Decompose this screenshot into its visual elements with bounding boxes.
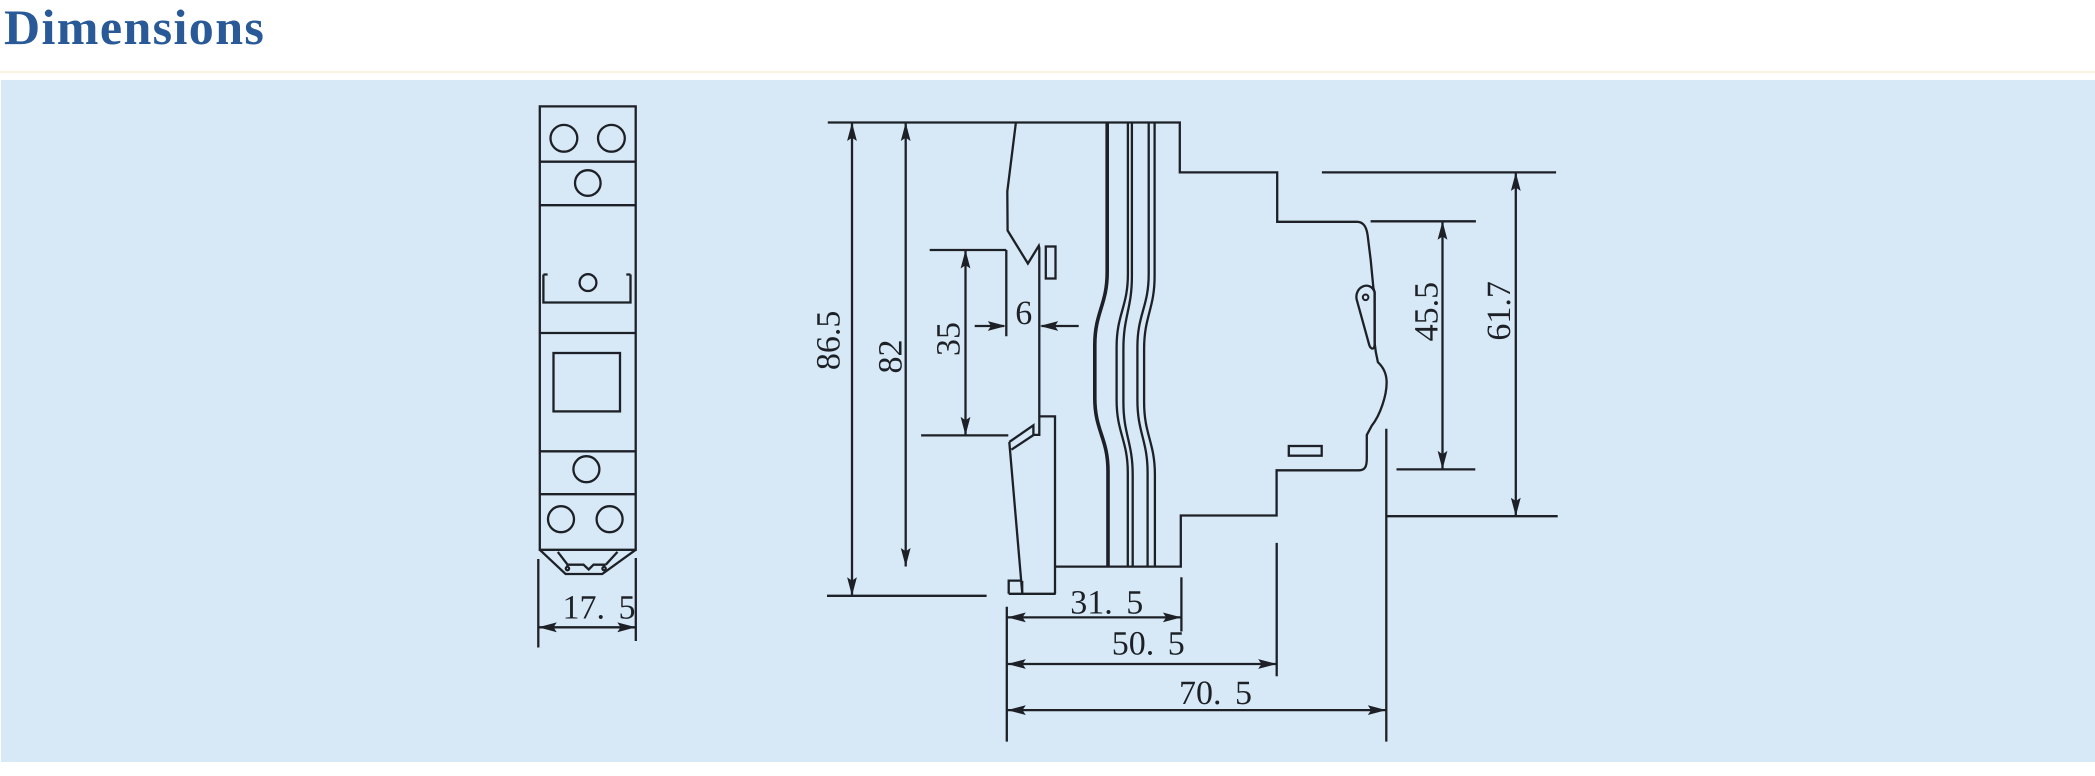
- front view divider 2: [540, 204, 636, 206]
- front view clip inner bottom with notch: [568, 565, 606, 570]
- front view terminal circle bottom-left: [548, 506, 574, 532]
- break line 1: [1095, 123, 1108, 567]
- arrowhead 50.5 left: [1007, 659, 1026, 669]
- dim 61.7 dimension line: [1515, 172, 1517, 516]
- front view small circle in bracket: [580, 274, 597, 291]
- dim 17.5 right extension line: [635, 558, 637, 641]
- svg-text:61.7: 61.7: [1481, 281, 1518, 341]
- front view clip left hook: [566, 565, 569, 571]
- svg-text:35: 35: [931, 322, 968, 356]
- front view divider 5: [540, 493, 636, 495]
- din clip slider left edge: [1009, 442, 1022, 594]
- svg-text:70. 5: 70. 5: [1179, 675, 1252, 712]
- dim 70.5 right extension line: [1385, 429, 1387, 742]
- din clip slider foot: [1009, 581, 1023, 594]
- arrowhead 31.5 left: [1007, 613, 1026, 623]
- dim 17.5 left extension line: [537, 559, 539, 648]
- front view divider 1: [540, 161, 636, 163]
- arrowhead 17.5 right: [617, 622, 636, 632]
- din clip slider flag: [1009, 425, 1033, 449]
- arrowhead 70.5 left: [1007, 705, 1026, 715]
- front view clip right hook: [602, 565, 605, 571]
- arrowhead 17.5 left: [538, 622, 557, 632]
- arrowhead 45.5 top: [1438, 221, 1448, 240]
- dim 35 top extension line: [930, 249, 1007, 251]
- arrowhead 82 bottom: [901, 548, 911, 567]
- front view terminal circle bottom-right: [597, 506, 623, 532]
- front view bracket notch: [543, 275, 630, 303]
- arrowhead 35 bottom: [961, 417, 971, 436]
- arrowhead 6 left: [988, 321, 1007, 331]
- faint rule: [0, 71, 2095, 73]
- arrowhead 35 top: [961, 250, 971, 269]
- svg-text:31. 5: 31. 5: [1070, 585, 1143, 622]
- side view left profile: [1007, 123, 1039, 435]
- dim 86.5 dimension line: [851, 123, 853, 596]
- dim 45.5 top extension line: [1371, 220, 1476, 222]
- svg-text:86.5: 86.5: [811, 311, 848, 371]
- shared left extension line: [1006, 607, 1008, 742]
- din clip slider bottom: [1009, 593, 1056, 595]
- dim 61.7 top extension line: [1322, 171, 1556, 173]
- front view clip inner left slant: [558, 552, 568, 565]
- break line 5: [1144, 123, 1155, 567]
- dim 45.5 dimension line: [1441, 221, 1443, 469]
- small tab rectangle: [1046, 247, 1056, 279]
- arrowhead 70.5 right: [1368, 705, 1387, 715]
- front view divider 3: [540, 332, 636, 334]
- front view terminal circle top-left: [551, 125, 578, 152]
- arrowhead 61.7 bottom: [1511, 498, 1521, 517]
- dim 31.5 dimension line: [1007, 616, 1181, 618]
- break line 4: [1137, 123, 1148, 567]
- title: [4, 0, 265, 56]
- arrowhead 6 right: [1040, 321, 1059, 331]
- dim 6 right arrow shaft: [1042, 325, 1079, 327]
- dim 31.5 right extension line: [1180, 577, 1182, 631]
- front view window square: [554, 353, 621, 411]
- arrowhead 50.5 right: [1258, 659, 1277, 669]
- dim 61.7 bottom extension line: [1386, 515, 1558, 517]
- dim 6 left extension line: [1005, 250, 1007, 336]
- latch teardrop: [1356, 286, 1374, 349]
- svg-text:17. 5: 17. 5: [563, 590, 636, 627]
- latch pivot hole: [1363, 295, 1369, 301]
- svg-text:82: 82: [873, 340, 910, 374]
- dim 86.5 bottom extension line: [827, 595, 987, 597]
- front view terminal circle top-right: [598, 125, 625, 152]
- dim 70.5 dimension line: [1007, 709, 1386, 711]
- arrowhead 61.7 top: [1511, 172, 1521, 191]
- front view terminal circle upper-middle: [575, 170, 601, 196]
- side view rail slot lower jaw step: [1039, 416, 1055, 593]
- front view clip inner right slant: [606, 552, 618, 565]
- dim 17.5 dimension line: [538, 626, 636, 628]
- dim 6 left arrow shaft: [975, 325, 1004, 327]
- arrowhead 31.5 right: [1163, 613, 1182, 623]
- dim 35 bottom extension line: [921, 434, 1008, 436]
- vent rectangle: [1289, 446, 1322, 456]
- arrowhead 45.5 bottom: [1438, 451, 1448, 470]
- svg-text:45.5: 45.5: [1409, 282, 1446, 342]
- dim 35 dimension line: [964, 250, 966, 435]
- break line 3: [1123, 123, 1132, 567]
- dim 45.5 bottom extension line: [1397, 468, 1476, 470]
- dim 50.5 dimension line: [1007, 663, 1276, 665]
- arrowhead 82 top: [901, 123, 911, 142]
- front view circle lower-middle: [573, 456, 599, 482]
- dim 50.5 right extension line: [1276, 543, 1278, 676]
- front view outer body: [540, 106, 636, 549]
- arrowhead 86.5 top: [847, 123, 857, 142]
- front view bottom trapezoid: [540, 550, 636, 574]
- arrowhead 86.5 bottom: [847, 577, 857, 596]
- break line 2: [1117, 123, 1128, 567]
- front view divider 4: [540, 450, 636, 452]
- svg-text:50. 5: 50. 5: [1112, 626, 1185, 663]
- dim 82 dimension line: [905, 123, 907, 567]
- side view top line and upper right outline: [828, 123, 1387, 567]
- svg-text:6: 6: [1015, 295, 1032, 332]
